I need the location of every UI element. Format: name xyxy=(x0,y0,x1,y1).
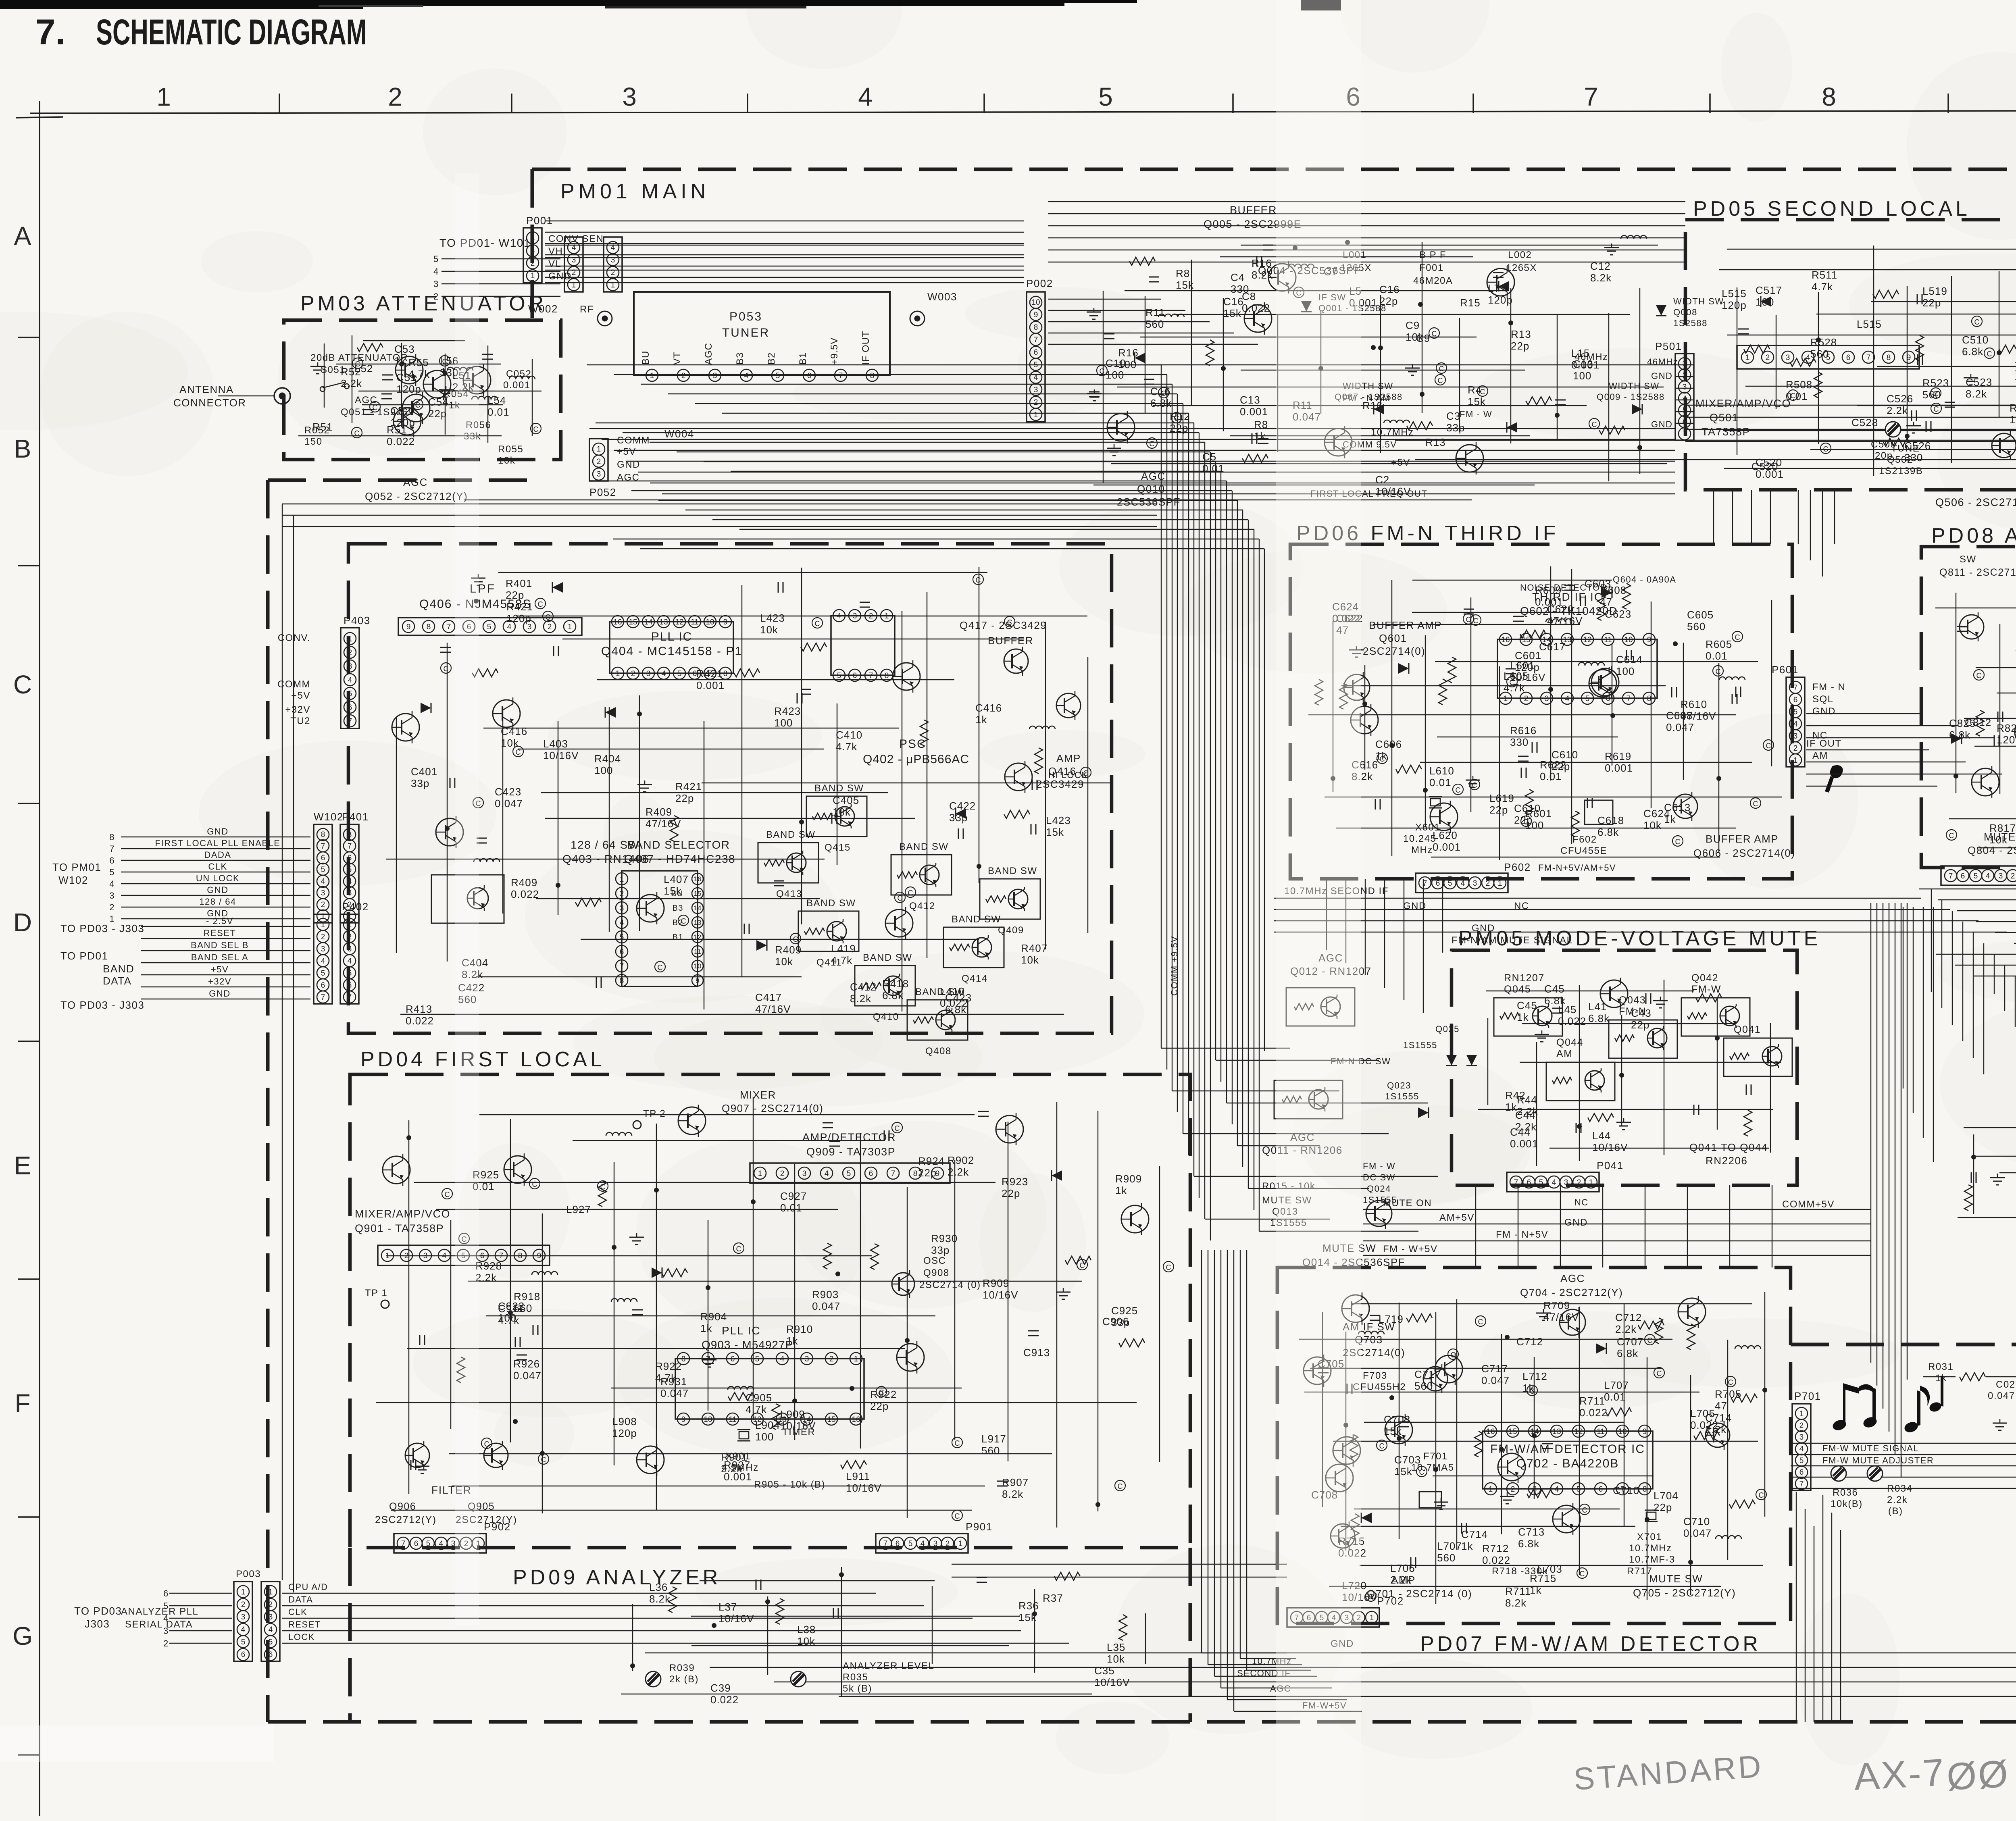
svg-text:1: 1 xyxy=(1034,411,1038,419)
svg-text:(B): (B) xyxy=(1888,1506,1903,1517)
wire xyxy=(1459,318,1460,432)
wire xyxy=(1140,337,1477,337)
svg-text:R409: R409 xyxy=(646,806,672,818)
svg-text:C: C xyxy=(976,576,981,584)
svg-text:E: E xyxy=(14,1151,31,1180)
wire xyxy=(1683,643,1684,780)
svg-text:GND: GND xyxy=(1812,706,1836,717)
svg-text:R13: R13 xyxy=(1511,328,1531,340)
marking circled C xyxy=(441,663,451,673)
svg-text:LOCK: LOCK xyxy=(288,1632,315,1642)
svg-text:C422: C422 xyxy=(949,800,976,812)
svg-text:TUNER: TUNER xyxy=(722,326,770,339)
svg-text:100: 100 xyxy=(774,717,793,729)
svg-text:L54: L54 xyxy=(487,394,506,406)
svg-text:IF OUT: IF OUT xyxy=(860,331,871,365)
ruler tick xyxy=(983,94,985,113)
svg-text:13: 13 xyxy=(1552,1428,1561,1436)
svg-text:20dB ATTENUATOR: 20dB ATTENUATOR xyxy=(310,352,408,363)
wire xyxy=(1745,386,2016,387)
ground xyxy=(1441,1498,1442,1502)
marking circled C xyxy=(531,423,541,434)
wire xyxy=(476,976,802,977)
svg-text:PM01 MAIN: PM01 MAIN xyxy=(560,180,710,203)
svg-text:C925: C925 xyxy=(1111,1305,1138,1317)
svg-text:16: 16 xyxy=(1501,636,1510,644)
svg-text:L423: L423 xyxy=(760,612,785,624)
svg-text:5: 5 xyxy=(241,1638,246,1646)
marking circled C xyxy=(876,1386,887,1397)
ground xyxy=(1507,1492,1508,1496)
svg-text:TO PD01- W101: TO PD01- W101 xyxy=(439,237,531,249)
resistor R703 xyxy=(1527,1490,1553,1498)
transistor Q15 xyxy=(1487,268,1514,296)
svg-text:0.022: 0.022 xyxy=(387,435,415,447)
svg-text:Q041: Q041 xyxy=(1734,1024,1761,1035)
svg-text:Q604 - 0A90A: Q604 - 0A90A xyxy=(1613,574,1676,585)
svg-text:2: 2 xyxy=(163,1638,169,1648)
svg-text:C: C xyxy=(1478,1318,1483,1326)
wire xyxy=(1093,485,1535,485)
transistor Q004 xyxy=(1244,305,1272,332)
svg-text:C: C xyxy=(1118,1482,1123,1490)
svg-text:15: 15 xyxy=(694,890,702,897)
svg-text:BUFFER AMP: BUFFER AMP xyxy=(1706,833,1779,845)
transistor Q4 xyxy=(1268,264,1296,291)
capacitor C913 xyxy=(419,1335,421,1345)
capacitor C719 xyxy=(1542,1443,1553,1444)
svg-text:Q408: Q408 xyxy=(925,1046,952,1057)
svg-text:5: 5 xyxy=(620,933,624,942)
band switch Q412 xyxy=(891,855,952,895)
svg-text:22p: 22p xyxy=(428,408,447,420)
svg-text:C703: C703 xyxy=(1384,1413,1410,1426)
paper mottle xyxy=(1018,328,1131,401)
diode D815 xyxy=(1951,733,1962,744)
ruler tick xyxy=(1947,94,1949,113)
svg-text:R711: R711 xyxy=(1579,1395,1605,1407)
svg-text:L619: L619 xyxy=(1489,792,1514,804)
svg-text:L706: L706 xyxy=(1390,1562,1415,1574)
resistor R718 xyxy=(1351,1514,1359,1540)
svg-text:3: 3 xyxy=(348,945,352,953)
wire xyxy=(502,707,503,914)
svg-text:Q041 TO Q044: Q041 TO Q044 xyxy=(1689,1141,1768,1153)
svg-text:Q009 - 1S2588: Q009 - 1S2588 xyxy=(1597,392,1665,402)
inductor L720 xyxy=(1735,1346,1761,1349)
capacitor C619 xyxy=(1580,595,1581,606)
marking circled C xyxy=(892,1122,902,1133)
wire xyxy=(1478,1109,1773,1110)
svg-text:3: 3 xyxy=(622,82,637,111)
svg-text:R511: R511 xyxy=(1812,269,1837,281)
svg-text:1: 1 xyxy=(572,281,576,289)
svg-text:C13: C13 xyxy=(1573,358,1593,370)
svg-text:120p: 120p xyxy=(1488,294,1513,306)
svg-text:6.8k: 6.8k xyxy=(1617,1347,1638,1359)
svg-text:6: 6 xyxy=(807,372,812,380)
svg-text:GND: GND xyxy=(207,826,228,837)
svg-text:RESET: RESET xyxy=(288,1619,321,1630)
transistor Q824 xyxy=(1972,768,1999,796)
svg-text:4: 4 xyxy=(321,957,325,966)
svg-text:1: 1 xyxy=(958,1540,963,1548)
capacitor C3 xyxy=(1555,400,1566,401)
bus horizontals upper mid right xyxy=(1685,405,2016,406)
wire xyxy=(1501,1334,1502,1534)
svg-text:2SC2714(0): 2SC2714(0) xyxy=(1363,645,1425,657)
marking circled C xyxy=(1163,1261,1174,1272)
svg-text:5: 5 xyxy=(1585,695,1590,703)
svg-text:C: C xyxy=(793,935,798,943)
svg-text:L002: L002 xyxy=(1508,250,1532,260)
svg-text:8.2k: 8.2k xyxy=(850,993,871,1005)
svg-text:C: C xyxy=(1456,786,1461,794)
svg-text:R822: R822 xyxy=(1997,722,2016,734)
svg-text:4: 4 xyxy=(321,877,325,886)
svg-text:4: 4 xyxy=(825,1170,829,1178)
wire xyxy=(1360,1565,1763,1566)
svg-text:3: 3 xyxy=(611,256,615,264)
svg-text:6: 6 xyxy=(853,672,857,680)
svg-text:1: 1 xyxy=(348,921,352,929)
svg-text:P501: P501 xyxy=(1655,340,1682,352)
svg-text:7: 7 xyxy=(348,842,352,851)
svg-text:4: 4 xyxy=(433,266,439,277)
svg-text:15k: 15k xyxy=(1384,1425,1402,1437)
wire xyxy=(1651,601,1652,808)
capacitor C56 xyxy=(482,354,493,355)
resistor R18 xyxy=(1964,1185,1972,1211)
svg-text:+5V: +5V xyxy=(1391,457,1410,468)
svg-text:0.01: 0.01 xyxy=(1604,1391,1626,1403)
svg-text:4: 4 xyxy=(1986,872,1990,880)
module box PM05 MODE-VOLTAGE MUTE xyxy=(1452,950,1797,1185)
svg-text:3: 3 xyxy=(620,904,624,913)
bus 46MHz line xyxy=(1048,364,1675,366)
svg-text:C: C xyxy=(1657,1369,1662,1378)
svg-text:7: 7 xyxy=(348,993,352,1002)
svg-text:128 / 64: 128 / 64 xyxy=(199,897,236,907)
svg-text:2: 2 xyxy=(1511,1485,1515,1494)
wire xyxy=(498,572,987,573)
svg-text:14: 14 xyxy=(644,618,653,626)
wire xyxy=(358,391,541,391)
svg-text:7: 7 xyxy=(1866,354,1871,362)
wire xyxy=(1433,1476,1654,1476)
svg-text:CPU A/D: CPU A/D xyxy=(288,1582,328,1592)
module box PD09 ANALYZER xyxy=(348,1548,352,1722)
svg-text:4: 4 xyxy=(858,82,873,111)
transistor Q506 xyxy=(1992,433,2016,458)
svg-text:8: 8 xyxy=(885,672,889,680)
svg-text:22p: 22p xyxy=(1922,297,1941,309)
wire xyxy=(1230,435,1530,436)
svg-text:C: C xyxy=(541,1456,546,1464)
svg-text:C39: C39 xyxy=(710,1682,731,1694)
resistor R817 xyxy=(1976,710,1984,736)
svg-text:1: 1 xyxy=(1504,695,1508,703)
svg-text:10/16V: 10/16V xyxy=(983,1289,1018,1301)
svg-text:Q705 - 2SC2712(Y): Q705 - 2SC2712(Y) xyxy=(1633,1587,1736,1599)
ground xyxy=(1114,444,1115,448)
ground xyxy=(1660,997,1661,1001)
resistor R929 xyxy=(871,1244,879,1269)
svg-text:C417: C417 xyxy=(755,991,782,1003)
svg-text:6.8k: 6.8k xyxy=(1518,1538,1539,1550)
svg-text:Q023: Q023 xyxy=(1387,1080,1411,1091)
svg-text:1: 1 xyxy=(1793,756,1798,765)
svg-text:0.001: 0.001 xyxy=(1433,841,1461,853)
bus P601 to PD08 xyxy=(1806,713,1921,714)
marking circled C xyxy=(1579,1504,1590,1515)
bus PD06 to PM05 verticals xyxy=(1326,879,1327,950)
wire xyxy=(362,404,503,405)
marking circled C xyxy=(1077,1259,1087,1270)
svg-text:22p: 22p xyxy=(1511,340,1529,352)
svg-text:C610: C610 xyxy=(1552,749,1578,761)
wire xyxy=(597,679,954,680)
wire xyxy=(708,1220,708,1411)
svg-text:8: 8 xyxy=(681,1355,686,1363)
wire xyxy=(691,1645,1009,1646)
bus center bundle top fans xyxy=(587,364,1161,365)
wire xyxy=(1857,405,2016,406)
svg-text:2: 2 xyxy=(631,670,635,678)
svg-text:6: 6 xyxy=(348,703,352,712)
svg-text:AGC: AGC xyxy=(1141,470,1166,482)
svg-text:VL: VL xyxy=(548,258,561,269)
ground xyxy=(1063,1288,1064,1292)
wire xyxy=(1956,593,1956,793)
svg-text:2: 2 xyxy=(1034,398,1038,407)
svg-text:X601: X601 xyxy=(1415,822,1440,833)
svg-text:2: 2 xyxy=(321,901,325,909)
wire xyxy=(1727,335,2016,335)
marking circled C xyxy=(1820,443,1831,454)
amp Q701 xyxy=(1331,1524,1355,1548)
svg-text:Q606 - 2SC2714(0): Q606 - 2SC2714(0) xyxy=(1693,847,1795,859)
transistor Q052 xyxy=(394,408,421,435)
resistor R923 xyxy=(841,1461,866,1469)
svg-text:1265X: 1265X xyxy=(1506,262,1537,273)
wire xyxy=(1771,600,1772,766)
capacitor C611 xyxy=(1735,687,1737,697)
svg-text:R413: R413 xyxy=(406,1003,432,1015)
svg-text:33p: 33p xyxy=(931,1244,950,1256)
svg-text:16: 16 xyxy=(694,875,702,883)
svg-text:13: 13 xyxy=(659,618,668,626)
svg-text:6: 6 xyxy=(869,1170,873,1178)
svg-text:MUTE SW: MUTE SW xyxy=(1649,1573,1703,1585)
resistor R720 xyxy=(1638,1321,1664,1329)
svg-text:1: 1 xyxy=(1370,1614,1374,1622)
marking circled C xyxy=(459,1233,469,1244)
diodes Q023-Q026 xyxy=(1418,1107,1429,1118)
resistor R12 xyxy=(1407,422,1433,430)
svg-text:9: 9 xyxy=(723,618,728,626)
svg-text:R508: R508 xyxy=(1786,379,1812,391)
128/64 switch block Q403 xyxy=(431,875,504,923)
band switch Q415 xyxy=(806,796,867,837)
svg-text:5: 5 xyxy=(321,969,325,978)
svg-text:L911: L911 xyxy=(846,1470,870,1482)
junction xyxy=(835,1272,840,1276)
svg-text:R909: R909 xyxy=(983,1277,1009,1289)
bus PD05 to P501 lines xyxy=(1675,364,1693,365)
wire xyxy=(1329,1586,1721,1587)
svg-text:7: 7 xyxy=(1627,695,1631,703)
svg-text:R902: R902 xyxy=(948,1154,974,1166)
svg-text:R035: R035 xyxy=(843,1672,868,1683)
svg-text:4: 4 xyxy=(1683,395,1687,403)
resistor R502 xyxy=(1744,345,1770,353)
diode D14 xyxy=(1507,422,1517,433)
svg-text:TO PM01: TO PM01 xyxy=(52,861,101,873)
wire xyxy=(1776,315,1776,409)
bus left vertical pair xyxy=(282,504,283,1580)
connector W101 pair top xyxy=(564,237,583,292)
connector P902 xyxy=(394,1534,486,1553)
svg-text:C: C xyxy=(1987,350,1992,358)
wire xyxy=(1935,608,2016,608)
marking circled C xyxy=(473,797,483,808)
svg-text:C: C xyxy=(1933,390,1939,398)
svg-text:5: 5 xyxy=(1793,708,1798,716)
svg-text:7: 7 xyxy=(401,1540,406,1548)
wire xyxy=(1103,291,1104,483)
bus PM05 to PD07 verticals xyxy=(1475,1185,1476,1267)
resistor R707 xyxy=(1606,1408,1631,1416)
svg-text:C416: C416 xyxy=(975,702,1002,714)
svg-text:1: 1 xyxy=(1498,879,1502,888)
resistor R8 xyxy=(1599,426,1625,434)
svg-text:15k: 15k xyxy=(664,885,682,897)
svg-text:R610: R610 xyxy=(1681,698,1707,710)
row tick xyxy=(18,1041,40,1042)
resistor R613 xyxy=(1439,679,1447,705)
wire xyxy=(298,435,502,436)
svg-text:R924: R924 xyxy=(918,1155,945,1167)
capacitor C617 xyxy=(1506,668,1516,670)
wire xyxy=(1008,1122,1008,1461)
wire xyxy=(483,728,899,728)
svg-text:5: 5 xyxy=(269,1638,273,1646)
capacitor C4 xyxy=(1104,333,1114,335)
wire xyxy=(386,1255,872,1256)
mute transistor block Q045 xyxy=(1494,998,1562,1036)
connector P602 xyxy=(1416,873,1508,893)
wire xyxy=(1979,847,2016,848)
svg-text:10.245: 10.245 xyxy=(1403,833,1436,844)
inductor L712 xyxy=(1358,1331,1384,1334)
svg-text:GND: GND xyxy=(1564,1217,1588,1228)
wire xyxy=(1333,621,1333,792)
resistor R929 xyxy=(823,1243,831,1269)
svg-text:F703: F703 xyxy=(1363,1370,1387,1381)
svg-text:2: 2 xyxy=(1577,1178,1581,1187)
svg-text:0.047: 0.047 xyxy=(660,1387,689,1399)
wire xyxy=(1999,271,1999,418)
module box PD04 upper xyxy=(348,544,1112,1033)
svg-text:ANALYZER LEVEL: ANALYZER LEVEL xyxy=(843,1661,934,1671)
inductor L928 xyxy=(728,1386,754,1390)
svg-text:22p: 22p xyxy=(870,1400,889,1412)
marking circled C xyxy=(1097,365,1107,376)
transistor Q717 xyxy=(1304,1357,1331,1384)
marking circled C xyxy=(1470,615,1481,625)
svg-text:C528: C528 xyxy=(1851,416,1878,429)
svg-text:PLL IC: PLL IC xyxy=(722,1324,761,1337)
wire xyxy=(1999,624,2000,794)
capacitor C519 xyxy=(1738,329,1749,330)
svg-text:L904: L904 xyxy=(755,1419,780,1431)
marking circled C xyxy=(1469,779,1480,790)
wire xyxy=(1997,693,2016,693)
svg-text:C: C xyxy=(1379,1442,1385,1450)
svg-text:0.01: 0.01 xyxy=(1429,776,1452,789)
svg-text:8: 8 xyxy=(109,832,115,842)
svg-text:L515: L515 xyxy=(1722,287,1747,300)
svg-text:0.047: 0.047 xyxy=(812,1300,840,1312)
svg-text:BAND SELECTOR: BAND SELECTOR xyxy=(627,839,730,851)
svg-text:2.2k: 2.2k xyxy=(1705,1424,1727,1436)
svg-text:R926: R926 xyxy=(513,1358,540,1370)
svg-text:R709: R709 xyxy=(1543,1299,1570,1311)
svg-text:ØØ: ØØ xyxy=(1946,1752,2011,1798)
svg-text:Q909 - TA7303P: Q909 - TA7303P xyxy=(806,1146,896,1158)
ink musical notes xyxy=(1831,1418,1847,1432)
svg-text:1: 1 xyxy=(616,670,620,678)
svg-text:6: 6 xyxy=(348,854,352,862)
capacitor C519 xyxy=(1926,421,1927,432)
transistor Q617 xyxy=(1591,668,1619,696)
svg-text:TO PD03: TO PD03 xyxy=(74,1605,122,1617)
svg-text:L704: L704 xyxy=(1654,1490,1679,1502)
svg-text:100: 100 xyxy=(1756,296,1774,308)
capacitor C4 xyxy=(1493,272,1504,273)
svg-text:C605: C605 xyxy=(1687,609,1714,621)
svg-text:FM-W: FM-W xyxy=(1691,984,1721,995)
svg-text:4: 4 xyxy=(611,243,615,252)
marking circled C xyxy=(1377,1440,1387,1451)
wire xyxy=(447,643,448,961)
svg-text:7: 7 xyxy=(1793,684,1798,692)
svg-text:G: G xyxy=(12,1621,33,1650)
wire xyxy=(1557,315,1558,440)
ground xyxy=(1541,1030,1543,1034)
svg-text:3: 3 xyxy=(646,670,651,678)
svg-text:2: 2 xyxy=(620,890,624,898)
svg-text:6: 6 xyxy=(1683,418,1687,427)
wire xyxy=(927,592,927,958)
svg-text:1: 1 xyxy=(758,1170,762,1178)
diode D7 xyxy=(1135,353,1145,363)
transistor Q811 sym xyxy=(1960,615,1984,639)
svg-text:C: C xyxy=(908,889,913,897)
svg-text:DADA: DADA xyxy=(204,850,231,860)
svg-text:10.7MA5: 10.7MA5 xyxy=(1411,1462,1454,1473)
svg-text:R922: R922 xyxy=(655,1360,682,1372)
wire xyxy=(1364,1422,1624,1423)
resistor R407 xyxy=(575,898,601,906)
svg-text:22p: 22p xyxy=(675,792,694,804)
wire xyxy=(324,343,325,408)
wire xyxy=(1639,288,1640,474)
svg-text:R421: R421 xyxy=(506,601,533,613)
svg-text:0.047: 0.047 xyxy=(1988,1390,2015,1401)
capacitor C427 xyxy=(797,693,798,703)
